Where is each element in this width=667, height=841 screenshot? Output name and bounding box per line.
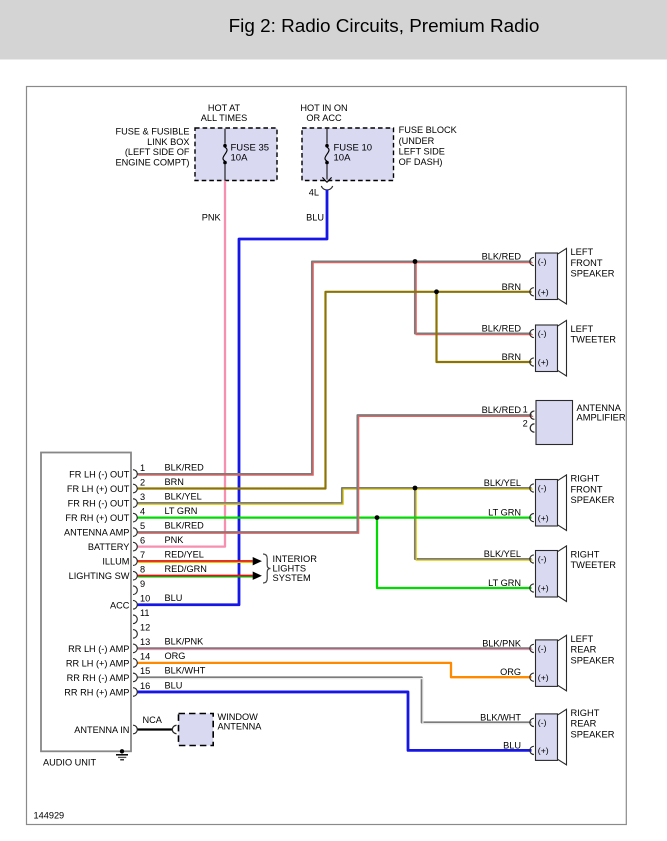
svg-text:BLK/YEL: BLK/YEL [484, 478, 521, 488]
svg-text:(-): (-) [538, 644, 547, 654]
svg-text:BLU: BLU [165, 680, 183, 690]
svg-text:16: 16 [140, 681, 150, 691]
svg-text:BRN: BRN [165, 477, 184, 487]
svg-text:AUDIO UNIT: AUDIO UNIT [43, 758, 96, 768]
svg-text:LT GRN: LT GRN [488, 578, 521, 588]
svg-text:BLK/WHT: BLK/WHT [480, 712, 521, 722]
svg-text:TWEETER: TWEETER [571, 560, 617, 570]
svg-text:1: 1 [140, 463, 145, 473]
svg-text:(-): (-) [538, 718, 547, 728]
svg-text:BLU: BLU [306, 212, 324, 222]
svg-text:10A: 10A [231, 152, 249, 163]
svg-text:BLK/RED: BLK/RED [165, 462, 205, 472]
svg-text:RIGHT: RIGHT [571, 708, 600, 718]
svg-text:LINK BOX: LINK BOX [147, 137, 189, 147]
svg-text:FRONT: FRONT [571, 484, 603, 494]
svg-text:BLK/RED: BLK/RED [482, 324, 522, 334]
svg-text:LT GRN: LT GRN [165, 506, 198, 516]
svg-text:SPEAKER: SPEAKER [571, 655, 615, 665]
svg-text:FUSE BLOCK: FUSE BLOCK [399, 125, 458, 135]
svg-text:PNK: PNK [202, 212, 222, 222]
svg-text:TWEETER: TWEETER [571, 335, 617, 345]
svg-text:3: 3 [140, 492, 145, 502]
svg-text:LEFT SIDE: LEFT SIDE [399, 146, 445, 156]
svg-text:HOT IN ON: HOT IN ON [300, 103, 347, 113]
svg-text:BRN: BRN [502, 352, 521, 362]
svg-text:1: 1 [523, 404, 528, 414]
svg-text:ANTENNA AMP: ANTENNA AMP [64, 528, 129, 538]
svg-text:ANTENNA: ANTENNA [218, 722, 263, 732]
svg-text:10: 10 [140, 594, 150, 604]
svg-text:7: 7 [140, 550, 145, 560]
svg-text:RR LH (+) AMP: RR LH (+) AMP [66, 658, 130, 668]
svg-text:RR RH (+) AMP: RR RH (+) AMP [64, 687, 129, 697]
svg-text:LEFT: LEFT [571, 324, 594, 334]
svg-text:LT GRN: LT GRN [488, 508, 521, 518]
svg-text:9: 9 [140, 579, 145, 589]
svg-text:(-): (-) [538, 483, 547, 493]
svg-text:BLK/PNK: BLK/PNK [482, 638, 522, 648]
svg-text:REAR: REAR [571, 645, 597, 655]
svg-text:(UNDER: (UNDER [399, 136, 435, 146]
svg-text:LEFT: LEFT [571, 247, 594, 257]
svg-text:SPEAKER: SPEAKER [571, 495, 615, 505]
svg-text:ORG: ORG [165, 651, 186, 661]
svg-text:INTERIOR: INTERIOR [273, 554, 318, 564]
svg-text:RR LH (-) AMP: RR LH (-) AMP [68, 644, 129, 654]
svg-text:OF DASH): OF DASH) [399, 157, 443, 167]
svg-text:LIGHTING SW: LIGHTING SW [69, 571, 130, 581]
svg-text:AMPLIFIER: AMPLIFIER [577, 413, 626, 423]
svg-text:15: 15 [140, 666, 150, 676]
svg-text:(LEFT SIDE OF: (LEFT SIDE OF [125, 147, 190, 157]
svg-text:14: 14 [140, 652, 150, 662]
svg-text:BRN: BRN [502, 282, 521, 292]
svg-text:(-): (-) [538, 329, 547, 339]
svg-text:BLK/RED: BLK/RED [482, 252, 522, 262]
svg-text:2: 2 [140, 477, 145, 487]
svg-text:FUSE & FUSIBLE: FUSE & FUSIBLE [115, 126, 189, 136]
svg-text:ANTENNA: ANTENNA [577, 403, 622, 413]
svg-text:OR ACC: OR ACC [306, 113, 342, 123]
svg-text:ENGINE COMPT): ENGINE COMPT) [115, 158, 189, 168]
svg-text:SYSTEM: SYSTEM [273, 573, 311, 583]
svg-text:(+): (+) [538, 287, 549, 297]
svg-text:SPEAKER: SPEAKER [571, 268, 615, 278]
svg-text:LIGHTS: LIGHTS [273, 564, 307, 574]
svg-text:HOT AT: HOT AT [208, 103, 241, 113]
svg-text:REAR: REAR [571, 719, 597, 729]
svg-text:(+): (+) [538, 746, 549, 756]
svg-text:BLK/RED: BLK/RED [165, 520, 205, 530]
svg-text:144929: 144929 [34, 811, 65, 821]
svg-text:4L: 4L [309, 187, 319, 197]
svg-text:SPEAKER: SPEAKER [571, 729, 615, 739]
svg-text:4: 4 [140, 506, 145, 516]
svg-text:12: 12 [140, 623, 150, 633]
svg-text:(-): (-) [538, 257, 547, 267]
svg-text:BATTERY: BATTERY [88, 542, 130, 552]
svg-text:FRONT: FRONT [571, 258, 603, 268]
svg-text:(-): (-) [538, 554, 547, 564]
svg-text:ALL TIMES: ALL TIMES [201, 113, 247, 123]
svg-text:ACC: ACC [110, 600, 130, 610]
svg-text:RIGHT: RIGHT [571, 550, 600, 560]
svg-text:ILLUM: ILLUM [102, 557, 129, 567]
svg-text:LEFT: LEFT [571, 634, 594, 644]
svg-text:(+): (+) [538, 513, 549, 523]
svg-text:BLU: BLU [165, 593, 183, 603]
svg-text:FR RH (+) OUT: FR RH (+) OUT [65, 513, 129, 523]
svg-text:5: 5 [140, 521, 145, 531]
svg-text:WINDOW: WINDOW [218, 712, 259, 722]
svg-text:BLK/PNK: BLK/PNK [165, 637, 205, 647]
svg-text:FR LH (-) OUT: FR LH (-) OUT [69, 470, 130, 480]
svg-text:ORG: ORG [500, 667, 521, 677]
svg-text:10A: 10A [334, 152, 352, 163]
svg-text:(+): (+) [538, 583, 549, 593]
svg-text:8: 8 [140, 565, 145, 575]
svg-text:BLK/YEL: BLK/YEL [165, 491, 202, 501]
svg-text:RIGHT: RIGHT [571, 474, 600, 484]
svg-text:(+): (+) [538, 357, 549, 367]
svg-text:FR RH (-) OUT: FR RH (-) OUT [68, 499, 130, 509]
svg-text:Fig 2: Radio Circuits, Premium: Fig 2: Radio Circuits, Premium Radio [229, 16, 540, 37]
svg-text:BLU: BLU [503, 740, 521, 750]
svg-text:NCA: NCA [143, 715, 163, 725]
svg-text:2: 2 [523, 419, 528, 429]
svg-text:11: 11 [140, 608, 150, 618]
svg-text:FR LH (+) OUT: FR LH (+) OUT [67, 484, 130, 494]
svg-text:RED/GRN: RED/GRN [165, 564, 207, 574]
svg-text:(+): (+) [538, 672, 549, 682]
svg-text:BLK/RED: BLK/RED [482, 405, 522, 415]
svg-text:6: 6 [140, 535, 145, 545]
svg-text:ANTENNA IN: ANTENNA IN [74, 725, 129, 735]
svg-text:RR RH (-) AMP: RR RH (-) AMP [67, 673, 130, 683]
svg-text:BLK/YEL: BLK/YEL [484, 549, 521, 559]
svg-text:BLK/WHT: BLK/WHT [165, 666, 206, 676]
svg-text:RED/YEL: RED/YEL [165, 549, 204, 559]
svg-text:PNK: PNK [165, 535, 185, 545]
svg-text:13: 13 [140, 637, 150, 647]
